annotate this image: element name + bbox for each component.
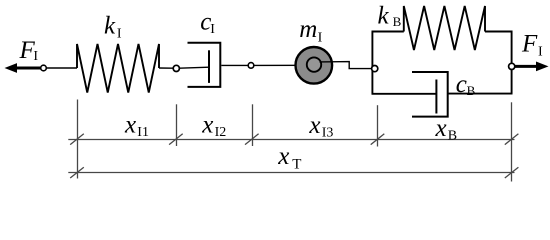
- label k_I: [104, 13, 122, 42]
- extension line at damper output node: [252, 104, 254, 146]
- wire (node to spring): [46, 67, 77, 69]
- label x_I1: [124, 112, 149, 141]
- damper c_B (cup + piston): [412, 72, 448, 117]
- damper c_I (cup + piston): [188, 43, 221, 87]
- svg-text:F: F: [521, 30, 538, 57]
- label x_I2: [201, 112, 226, 141]
- extension line at spring/damper node: [176, 104, 178, 146]
- svg-text:I3: I3: [322, 126, 334, 141]
- label F_I (left force): [19, 37, 39, 64]
- svg-text:x: x: [277, 143, 289, 170]
- force arrow F_I right: [515, 62, 549, 72]
- tick at 77 / line1: [70, 134, 84, 145]
- svg-text:x: x: [124, 112, 136, 139]
- parallel branch frame: left riser: [371, 32, 373, 94]
- label c_I: [200, 8, 215, 37]
- svg-text:x: x: [201, 112, 213, 139]
- spring k_B: [404, 6, 485, 50]
- svg-text:x: x: [308, 112, 320, 139]
- spring k_I: [77, 44, 159, 93]
- node circle (branch left): [372, 66, 378, 72]
- node circle (spring to damper): [173, 65, 179, 71]
- svg-text:k: k: [104, 13, 116, 40]
- svg-text:I: I: [538, 45, 543, 60]
- extension line at spring left end: [77, 100, 79, 179]
- extension line at right node: [511, 102, 513, 181]
- svg-text:I: I: [210, 22, 215, 37]
- svg-text:B: B: [467, 83, 476, 98]
- svg-text:I2: I2: [215, 125, 227, 140]
- top rail right: [485, 31, 513, 33]
- mass m_I hub (inner circle): [307, 57, 321, 71]
- right riser: [511, 31, 513, 94]
- svg-text:m: m: [299, 16, 317, 43]
- dimension line 1: [68, 139, 514, 141]
- top rail left: [372, 31, 404, 33]
- mass m_I (outer disc): [296, 47, 333, 84]
- svg-text:c: c: [456, 71, 467, 98]
- extension line at branch left node: [377, 105, 379, 146]
- tick at 77 / line2: [70, 167, 84, 178]
- wire (damper to node): [221, 64, 248, 66]
- svg-text:B: B: [393, 14, 402, 29]
- tick at 251.8 / line1: [245, 134, 259, 145]
- label x_T: [277, 143, 301, 173]
- svg-text:x: x: [435, 115, 447, 142]
- node circle (arrow to spring): [41, 65, 47, 71]
- node circle (damper to mass): [248, 63, 254, 69]
- tick at 175.9 / line1: [169, 134, 183, 145]
- svg-text:T: T: [292, 157, 301, 173]
- label x_B: [435, 115, 458, 144]
- dimension line 2 (total x_T): [68, 172, 514, 174]
- bottom rail right: [448, 93, 513, 95]
- svg-text:I1: I1: [137, 125, 149, 140]
- wire (node to mass): [254, 64, 307, 66]
- wire piston rod into damper c_I: [179, 67, 209, 68]
- tick at 377.5 / line1: [371, 134, 385, 145]
- wire (spring to node): [159, 67, 173, 69]
- node circle (branch right, filled): [509, 63, 515, 69]
- tick at 511.6 / line1: [505, 134, 519, 145]
- tick at 511.6 / line2: [505, 167, 519, 178]
- label m_I: [299, 16, 322, 46]
- svg-text:I: I: [117, 27, 122, 42]
- label x_I3: [308, 112, 333, 141]
- svg-text:I: I: [318, 31, 323, 46]
- svg-text:I: I: [33, 49, 38, 64]
- label k_B: [378, 3, 402, 30]
- wire with jog (mass to branch node): [320, 62, 372, 69]
- svg-text:B: B: [448, 129, 457, 144]
- force arrow F_I left: [5, 63, 42, 73]
- label c_B: [456, 71, 476, 98]
- svg-text:k: k: [378, 3, 390, 30]
- bottom rail left (rod to damper c_B): [372, 93, 437, 95]
- label F_I (right force): [521, 30, 543, 59]
